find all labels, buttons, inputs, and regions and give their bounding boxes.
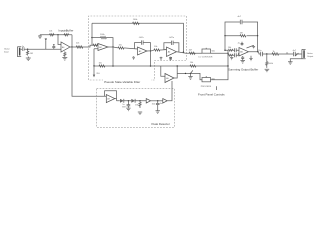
jack sleeve ground <box>290 59 302 62</box>
input path B <box>227 53 230 55</box>
ground under U1 <box>62 58 67 61</box>
wire U7 feedback <box>105 91 117 101</box>
node <box>139 100 140 101</box>
capacitor C3 integrator feedback <box>135 43 151 51</box>
resistor R5 <box>76 46 83 48</box>
bias arrow Vref <box>45 41 47 49</box>
capacitor C7 <box>235 48 239 52</box>
node process wire <box>185 73 186 74</box>
bias U4 ground <box>160 57 163 60</box>
wire U5 out to process <box>177 73 202 79</box>
resistor R14 1M feedback <box>225 35 258 37</box>
resistor R15 <box>229 49 235 51</box>
buffer U9 <box>163 99 167 103</box>
svg-text:Input: Input <box>4 51 9 54</box>
svg-text:Output: Output <box>307 55 314 58</box>
bias ref arrow <box>249 56 252 61</box>
wire to peak detector <box>72 47 107 96</box>
op-amp U6 summing <box>239 48 249 57</box>
wire into U5 inverting <box>161 66 165 76</box>
capacitor C11 <box>294 52 302 57</box>
wire inverting input <box>58 35 61 45</box>
potentiometer VR3 wiper to ground <box>190 73 191 74</box>
wire U2 out to lowpass rail <box>112 47 114 66</box>
ground <box>265 69 270 72</box>
wire U1 output <box>70 45 98 47</box>
capacitor bias to ground under U6 <box>240 56 245 63</box>
wire long feedback <box>92 23 183 52</box>
svg-text:.047u: .047u <box>139 37 145 39</box>
resistor R7 feedback <box>133 22 140 24</box>
resistor R2 <box>50 34 55 36</box>
potentiometer VR2 2k5 <box>93 66 95 75</box>
node U2 inverting rail <box>91 23 93 45</box>
output jack J2 Guitar Output <box>303 50 305 58</box>
capacitor C4 integrator feedback <box>164 43 179 52</box>
resistor R12 <box>99 65 105 67</box>
node out <box>266 53 267 54</box>
op-amp U5 driver <box>165 74 174 83</box>
node U1 output <box>71 46 72 47</box>
node U4 out <box>183 52 184 53</box>
svg-text:Summing Output Buffer: Summing Output Buffer <box>228 67 258 71</box>
node U2 out <box>112 46 113 47</box>
resistor R11 <box>189 52 195 54</box>
wire U2 noninverting from lower rail <box>94 49 98 66</box>
node input <box>27 49 28 50</box>
input path A <box>227 50 229 53</box>
bias U3 <box>132 56 135 59</box>
resistor R16 <box>229 54 235 56</box>
wire bandpass out <box>177 52 190 54</box>
resistor R9 <box>118 47 138 49</box>
node U6 out <box>257 51 258 52</box>
resistor R4 under U1 <box>64 52 66 57</box>
resistor R19 to ground <box>139 101 141 108</box>
op-amp U3 integrator 1 <box>138 47 148 55</box>
resistor R1 1M <box>27 49 29 51</box>
capacitor C5 to ground <box>169 57 172 60</box>
op-amp U4 integrator 2 <box>167 47 177 57</box>
wire U3 out <box>147 50 152 52</box>
svg-text:LO CONTOUR: LO CONTOUR <box>199 57 213 59</box>
svg-text:.047u: .047u <box>169 37 175 39</box>
dashed block: pseudo state-variable filter <box>89 16 187 80</box>
potentiometer VR1 LO CONTOUR <box>202 49 211 53</box>
svg-text:PROCESS: PROCESS <box>201 86 212 88</box>
label: Pseudo State-Variable Filter <box>103 79 151 84</box>
wire PROCESS out to summing node <box>211 53 229 79</box>
svg-text:1M: 1M <box>240 33 243 35</box>
capacitor C12 to ground <box>127 101 131 108</box>
diode D2 <box>131 99 135 103</box>
op-amp U2 <box>98 44 108 51</box>
resistor R6 into filter <box>93 44 99 46</box>
wire U7 out <box>115 99 120 101</box>
wire input <box>21 48 61 50</box>
ground <box>26 57 31 61</box>
wire U3 out to lowpass rail <box>150 51 152 66</box>
capacitor C13 to ground <box>156 101 160 111</box>
ground for divider <box>38 35 42 39</box>
wire U5 out <box>174 66 177 78</box>
capacitor C9 bias bypass <box>241 42 244 46</box>
capacitor C6 feedback <box>225 22 258 36</box>
wire peak det out to U5 <box>167 81 172 101</box>
capacitor C10 <box>261 52 274 57</box>
op-amp U7 <box>106 95 115 103</box>
node <box>128 100 129 101</box>
dashed block: peak detector <box>97 89 175 128</box>
svg-text:Guitar: Guitar <box>307 52 313 55</box>
svg-text:Front Panel Controls: Front Panel Controls <box>198 92 225 96</box>
node summing junction <box>227 53 228 54</box>
buffer U8 <box>146 99 150 103</box>
resistor R8 U2 local feedback <box>92 37 113 48</box>
resistor R18 series <box>272 53 293 55</box>
node <box>157 100 158 101</box>
svg-text:Guitar: Guitar <box>4 48 10 51</box>
resistor R10 <box>152 49 167 51</box>
node divider <box>57 34 58 35</box>
wire U6 out <box>249 52 261 54</box>
svg-text:35V: 35V <box>122 107 126 109</box>
ground under path B <box>230 57 233 59</box>
resistor R13 <box>190 65 196 67</box>
wire <box>151 100 163 102</box>
lower filter wire lowpass <box>94 65 228 67</box>
wire rail left <box>225 36 229 50</box>
svg-text:1M: 1M <box>135 105 138 107</box>
diode D1 <box>120 99 124 103</box>
svg-text:1M: 1M <box>30 53 33 55</box>
wire to summing / lo contour <box>189 52 228 54</box>
wire feedback to output <box>71 35 73 47</box>
capacitor C2 to wire <box>52 44 55 49</box>
resistor R17 pulldown <box>266 54 268 68</box>
svg-text:Pseudo State-Variable Filter: Pseudo State-Variable Filter <box>104 80 140 84</box>
svg-text:Peak Detector: Peak Detector <box>152 122 170 126</box>
wire U2 out <box>108 46 118 49</box>
potentiometer VR4 PROCESS <box>202 78 211 82</box>
wire rail right <box>257 36 259 52</box>
bias ref U6 <box>247 45 254 48</box>
wire feedback divider <box>40 34 72 36</box>
op-amp U1 input buffer <box>61 42 70 52</box>
capacitor C8 <box>235 53 239 57</box>
capacitor C1 <box>22 47 24 51</box>
node U3 out <box>150 50 151 51</box>
resistor R3 <box>64 34 69 36</box>
